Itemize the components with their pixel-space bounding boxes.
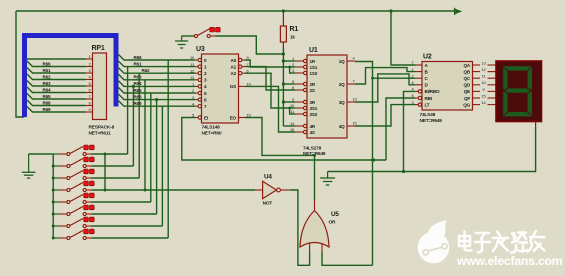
wire bus tap to U3 input 0 net R66 [119, 55, 196, 61]
svg-text:R62: R62 [43, 74, 51, 79]
wire bus tap to RP1 pin 3 net R61 [27, 68, 86, 74]
wire SW1 row to ground [29, 153, 54, 155]
junction EI net / 1Q feedback [371, 159, 374, 162]
U2 input pin B (pin 1) [415, 71, 422, 73]
wire switch-bank ground bus [52, 154, 54, 238]
wire bus tap to U3 input 6 net R68 [119, 94, 196, 100]
junction reset net y=54 [282, 52, 285, 55]
svg-text:EI: EI [204, 115, 208, 120]
svg-text:R68: R68 [134, 94, 142, 99]
switch SW2 [52, 165, 55, 168]
wire reset branch to U1 R input y=126 [283, 125, 295, 127]
svg-text:A2: A2 [231, 71, 237, 76]
U1 output pin 3Q (pin 13) [347, 101, 355, 103]
wire switch SW6 riser [156, 100, 158, 214]
wire OR output up [314, 155, 316, 200]
svg-text:EO: EO [230, 115, 237, 120]
svg-text:R64: R64 [134, 81, 142, 86]
U3 input pin 6 (pin 3) [195, 99, 198, 101]
svg-text:3R: 3R [310, 100, 316, 105]
ground (display common) [327, 172, 329, 179]
U1 output pin 4Q (pin 15) [347, 125, 355, 127]
U3 input pin 3 (pin 13) [195, 79, 198, 81]
switch RESET [194, 34, 197, 37]
latch U1 body [307, 55, 347, 138]
svg-text:1k: 1k [290, 35, 295, 40]
junction SW1 column [104, 153, 107, 156]
switch SW8 [52, 237, 55, 240]
wire 1S2 tie [290, 67, 295, 73]
wire 1Q branch to U2.C [373, 77, 416, 79]
U2 output pin QE (pin 9) [473, 90, 481, 92]
wire NOT output to OR input A [290, 190, 310, 265]
switch SW1 [53, 153, 60, 155]
svg-text:LT: LT [425, 102, 430, 107]
wire 4Q to U2.LT [355, 105, 415, 126]
wire SW4 net to NOT gate [92, 189, 256, 191]
U2 input pin A (pin 7) [415, 64, 422, 66]
decoder U2 body [422, 62, 473, 111]
wire bus tap to RP1 pin 5 net R63 [27, 81, 86, 87]
wire switch SW8 riser [167, 60, 169, 238]
U1 input pin 3S2 (pin 11) [295, 113, 304, 115]
svg-text:R64: R64 [43, 87, 51, 92]
svg-text:QD: QD [464, 83, 471, 88]
svg-text:R62: R62 [142, 68, 150, 73]
U3 input pin 1 (pin 11) [195, 66, 198, 68]
svg-text:R66: R66 [134, 55, 142, 60]
svg-text:R61: R61 [43, 68, 51, 73]
wire GS to 4S [245, 86, 295, 132]
wire bus tap to U3 input 1 net R61 [119, 61, 196, 67]
RP1 pin 6 [86, 92, 93, 94]
svg-text:74LS48: 74LS48 [420, 112, 436, 118]
svg-text:U1: U1 [309, 47, 318, 54]
svg-text:1S2: 1S2 [310, 71, 318, 76]
svg-text:U3: U3 [196, 46, 205, 53]
switch SW6 [52, 213, 55, 216]
RP1 pin 1 [86, 58, 93, 60]
svg-text:GS: GS [230, 84, 236, 89]
svg-text:R1: R1 [290, 26, 299, 33]
svg-text:RESPACK-8: RESPACK-8 [89, 125, 115, 131]
wire VCC to U2.A [391, 11, 415, 65]
svg-text:4R: 4R [310, 124, 316, 129]
watermark chinese text [459, 231, 545, 253]
svg-text:NET=R649: NET=R649 [420, 118, 443, 124]
node VCC terminal arrow [454, 8, 456, 15]
resistor R1 [282, 11, 284, 26]
wire SW8 to riser [92, 237, 169, 239]
svg-text:NOT: NOT [263, 201, 273, 207]
wire ground to reset switch [182, 35, 195, 37]
svg-text:U4: U4 [264, 174, 272, 181]
wire left frame vertical [16, 11, 25, 117]
wire display common to ground [535, 122, 537, 128]
svg-text:3S2: 3S2 [310, 112, 318, 117]
display pin segment A [488, 64, 497, 66]
U2 input pin LT (pin 3) [415, 104, 418, 106]
wire SW1 column stub [104, 154, 106, 190]
wire VCC top rail [16, 10, 455, 12]
U1 input pin 1R (pin 1) [295, 60, 304, 62]
wire SW2 to riser [92, 165, 134, 167]
U1 input pin 4S (pin 15) [295, 131, 304, 133]
junction reset net y=61 [282, 59, 285, 62]
RP1 pin 8 [86, 105, 93, 107]
RP1 pin 5 [86, 85, 93, 87]
U1 input pin 4R (pin 14) [295, 125, 304, 127]
svg-text:QF: QF [464, 96, 470, 101]
ground (switch bank) [28, 154, 30, 172]
U1 input pin 3S1 (pin 10) [295, 107, 304, 109]
wire A2 to 3S1 [245, 73, 295, 108]
U3 output pin A2 (pin 6) [239, 72, 242, 75]
wire switch SW4 riser [144, 80, 146, 190]
svg-text:R65: R65 [134, 88, 142, 93]
svg-text:U5: U5 [331, 211, 339, 218]
svg-text:74LS279: 74LS279 [303, 145, 322, 151]
RP1 pin 4 [86, 79, 93, 81]
svg-text:4Q: 4Q [339, 124, 345, 129]
svg-text:3Q: 3Q [339, 100, 345, 105]
wire OR input B to 1Q feedback net [322, 252, 373, 265]
wire RP1 pin1 to bus [27, 58, 86, 60]
svg-text:1R: 1R [310, 59, 316, 64]
U2 output pin QD (pin 10) [473, 84, 481, 86]
U3 input pin 0 (pin 10) [195, 59, 198, 61]
U3 pin EI (pin 5) [195, 117, 198, 119]
svg-text:OR: OR [329, 220, 337, 226]
U2 input pin RBI (pin 5) [415, 97, 418, 99]
junction reset net y=102 [282, 100, 285, 103]
U3 input pin 2 (pin 12) [195, 72, 198, 74]
wire switch SW1 riser [127, 67, 129, 154]
U5 output stub [314, 200, 316, 210]
U3 output pin A0 (pin 9) [239, 58, 242, 61]
svg-text:3S1: 3S1 [310, 106, 318, 111]
svg-text:4S: 4S [310, 130, 315, 135]
U3 pin GS (pin 14) [239, 85, 246, 87]
U3 input pin 5 (pin 2) [195, 92, 198, 94]
svg-text:2R: 2R [310, 82, 316, 87]
junction reset net y=84 [282, 82, 285, 85]
U2 output pin QG (pin 14) [473, 104, 481, 106]
svg-text:QE: QE [464, 89, 470, 94]
U1 input pin 1S2 (pin 3) [295, 72, 304, 74]
svg-text:R68: R68 [43, 100, 51, 105]
wire reset switch to R1 net [216, 36, 284, 54]
wire SW1 to riser [92, 153, 128, 155]
svg-text:2S: 2S [310, 88, 315, 93]
svg-text:A1: A1 [231, 64, 237, 69]
wire bus tap to RP1 pin 4 net R62 [27, 74, 86, 80]
junction EI / OR input [372, 158, 375, 161]
wire switch SW7 riser [161, 106, 163, 226]
U1 output pin 1Q (pin 4) [347, 60, 355, 62]
wire bus tap to U3 input 4 net R64 [119, 81, 196, 87]
U2 input pin C (pin 2) [415, 77, 422, 79]
wire U2.RBI to EI net [386, 98, 415, 160]
wire switch SW5 riser [150, 93, 152, 202]
svg-text:QG: QG [463, 102, 470, 107]
U3 input pin 7 (pin 4) [195, 105, 198, 107]
RP1 pin 2 [86, 66, 93, 68]
display pin segment F [488, 97, 497, 99]
svg-text:NET=R60: NET=R60 [202, 130, 222, 136]
wire bus tap to RP1 pin 7 net R65 [27, 94, 86, 100]
U1 input pin 2S (pin 6) [295, 89, 304, 91]
svg-text:A0: A0 [231, 58, 237, 63]
svg-text:1S1: 1S1 [310, 65, 318, 70]
resistor-pack RP1 body [93, 53, 107, 120]
switch SW4 [52, 189, 55, 192]
wire bus tap to RP1 pin 8 net R68 [27, 100, 86, 106]
wire U3.EI net [182, 118, 386, 161]
watermark logo [418, 220, 450, 263]
svg-text:R66: R66 [43, 61, 51, 66]
display pin segment E [488, 90, 497, 92]
svg-text:R69: R69 [43, 107, 51, 112]
U2 output pin QB (pin 12) [473, 71, 481, 73]
U2 output pin QF (pin 15) [473, 97, 481, 99]
7-segment display body [496, 61, 542, 122]
U1 output pin 2Q (pin 7) [347, 83, 355, 85]
wire switch SW2 riser [132, 86, 134, 166]
svg-text:QC: QC [464, 76, 471, 81]
display pin segment B [488, 71, 497, 73]
wire bus tap to U3 input 7 net R69 [119, 101, 196, 107]
wire reset branch to U1 R input y=84 [283, 83, 295, 85]
wire 3S2 tie [290, 108, 295, 114]
switch SW5 [52, 201, 55, 204]
svg-text:R63: R63 [134, 75, 142, 80]
U1 input pin 3R (pin 9) [295, 101, 304, 103]
svg-text:QA: QA [464, 63, 471, 68]
svg-text:R65: R65 [43, 94, 51, 99]
U1 input pin 2R (pin 5) [295, 83, 304, 85]
ground (reset switch) [181, 36, 183, 41]
junction riser SW2 [132, 85, 135, 88]
svg-text:R61: R61 [134, 61, 142, 66]
switch SW7 [52, 225, 55, 228]
wire A1 to 2S [245, 67, 295, 90]
display pin segment G [488, 104, 497, 106]
U3 input pin 4 (pin 1) [195, 85, 198, 87]
wire EO to OR output node [245, 118, 315, 156]
bus main (blue) [22, 33, 27, 117]
wire bus tap to RP1 pin 2 net R66 [27, 61, 86, 67]
wire 1Q feedback vertical [355, 62, 373, 266]
wire bus tap to RP1 pin 9 net R69 [27, 107, 86, 113]
wire SW6 to riser [92, 213, 157, 215]
U3 pin EO (pin 15) [239, 117, 246, 119]
encoder U3 body [202, 54, 239, 123]
RP1 pin 9 [86, 111, 93, 113]
wire reset net vertical [282, 48, 284, 126]
U5 input stubs [309, 244, 311, 253]
svg-text:QB: QB [464, 69, 471, 74]
junction riser SW6 [155, 98, 158, 101]
svg-text:RBI: RBI [425, 96, 432, 101]
display pin segment C [488, 77, 497, 79]
wire reset branch to U1 R input y=102 [283, 101, 295, 103]
junction R1 on VCC rail [282, 9, 285, 12]
svg-text:R63: R63 [43, 81, 51, 86]
wire U2.BI to ground net [404, 91, 416, 171]
U2 output pin QA (pin 13) [473, 64, 481, 66]
wire switch SW3 riser [138, 73, 140, 178]
wire bus tap to U3 input 2 net R62 [119, 68, 196, 74]
svg-text:1Q: 1Q [339, 59, 345, 64]
svg-text:RP1: RP1 [92, 45, 105, 52]
U2 input pin BI/RBO (pin 4) [415, 90, 418, 92]
svg-text:2Q: 2Q [339, 82, 345, 87]
inverter U4 [263, 181, 277, 198]
display pin segment D [488, 84, 497, 86]
RP1 pin 3 [86, 72, 93, 74]
svg-text:NET=R611: NET=R611 [89, 130, 112, 136]
wire reset branch to U1 R input y=61 [283, 60, 295, 62]
wire 3Q to U2.D [355, 74, 415, 102]
U1 input pin 1S1 (pin 2) [295, 66, 304, 68]
svg-text:BI/RBO: BI/RBO [425, 89, 441, 94]
svg-text:74LS148: 74LS148 [202, 125, 221, 131]
7-segment digit 8 [503, 66, 532, 116]
wire bus tap to U3 input 3 net R63 [119, 74, 196, 80]
wire bus tap to RP1 pin 6 net R64 [27, 87, 86, 93]
wire A0 to 1S1 [245, 60, 295, 67]
wire SW7 to riser [92, 225, 163, 227]
or-gate U5 [300, 211, 329, 248]
wire bus tap to U3 input 5 net R65 [119, 88, 196, 94]
svg-text:U2: U2 [423, 54, 432, 61]
svg-text:www.elecfans.com: www.elecfans.com [456, 254, 563, 268]
switch SW3 [52, 177, 55, 180]
wire SW5 to riser [92, 201, 151, 203]
U2 output pin QC (pin 11) [473, 77, 481, 79]
RP1 pin 7 [86, 98, 93, 100]
svg-text:R69: R69 [134, 101, 142, 106]
U3 output pin A1 (pin 7) [239, 65, 242, 68]
wire SW3 to riser [92, 177, 140, 179]
wire 2Q to U2.B [355, 68, 415, 84]
U2 input pin D (pin 6) [415, 84, 422, 86]
